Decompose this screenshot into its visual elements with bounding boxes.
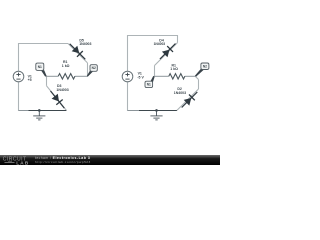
svg-text:N2: N2	[203, 64, 207, 68]
svg-text:LAB: LAB	[16, 160, 29, 165]
svg-text:1 kΩ: 1 kΩ	[62, 64, 70, 68]
svg-text:N1: N1	[147, 83, 151, 87]
svg-text:1N4003: 1N4003	[174, 91, 186, 95]
svg-text:http://circuitlab.com/c/pwp523: http://circuitlab.com/c/pwp523	[35, 160, 91, 164]
svg-text:1 kΩ: 1 kΩ	[170, 67, 178, 71]
svg-text:1N4003: 1N4003	[79, 42, 91, 46]
svg-text:-5 V: -5 V	[137, 75, 144, 79]
svg-text:+5: +5	[28, 78, 32, 82]
svg-text:N2: N2	[92, 66, 96, 70]
svg-text:1N4003: 1N4003	[154, 42, 166, 46]
svg-text:N1: N1	[38, 65, 42, 69]
svg-text:1N4003: 1N4003	[56, 88, 68, 92]
